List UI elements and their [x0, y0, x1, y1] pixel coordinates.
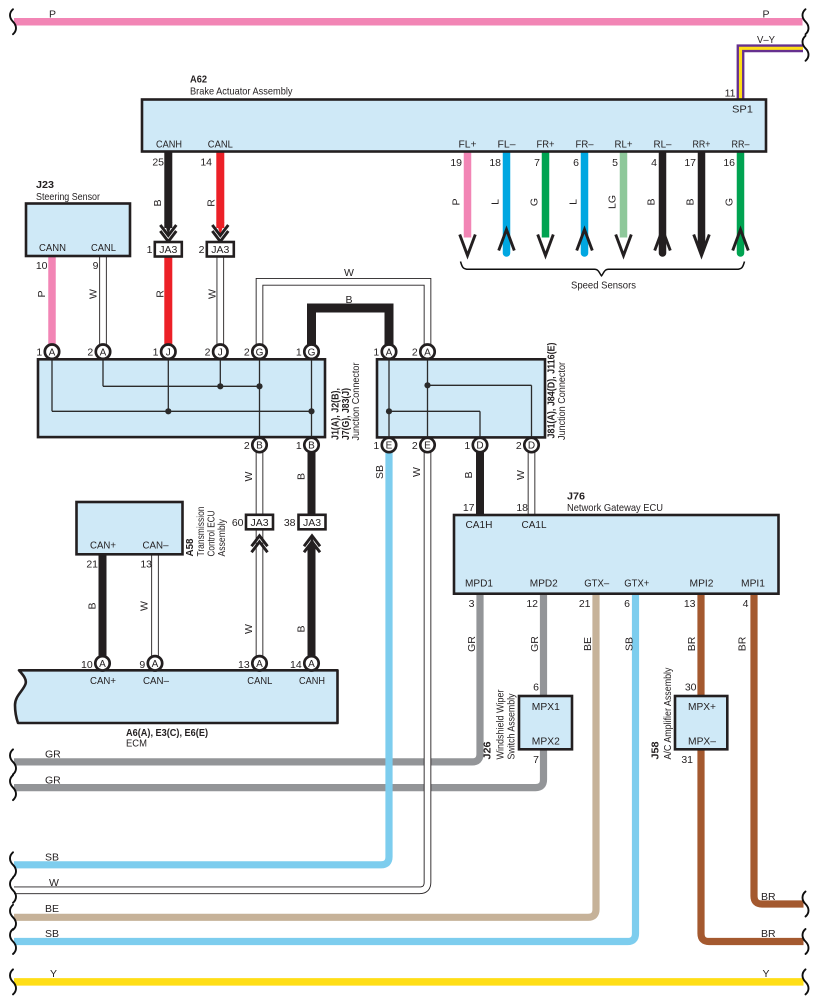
- svg-text:12: 12: [526, 598, 538, 610]
- svg-text:W: W: [344, 267, 354, 279]
- svg-text:7: 7: [533, 754, 539, 766]
- svg-text:V–Y: V–Y: [757, 34, 775, 46]
- svg-text:A: A: [424, 347, 431, 358]
- svg-text:6: 6: [573, 157, 579, 169]
- svg-text:JA3: JA3: [159, 244, 177, 256]
- svg-text:CANH: CANH: [299, 675, 325, 687]
- svg-text:MPD1: MPD1: [465, 577, 493, 589]
- svg-text:B: B: [685, 198, 697, 205]
- svg-text:P: P: [49, 9, 56, 21]
- svg-text:JA3: JA3: [211, 244, 229, 256]
- svg-text:CAN–: CAN–: [143, 540, 169, 552]
- svg-text:9: 9: [93, 260, 99, 272]
- svg-text:2: 2: [244, 347, 250, 359]
- svg-text:J26: J26: [482, 741, 494, 759]
- svg-text:CA1L: CA1L: [522, 519, 547, 531]
- svg-text:SB: SB: [624, 637, 636, 651]
- svg-text:1: 1: [373, 440, 379, 452]
- svg-text:4: 4: [743, 598, 749, 610]
- svg-text:R: R: [155, 290, 167, 298]
- svg-text:Speed Sensors: Speed Sensors: [571, 280, 636, 292]
- svg-text:38: 38: [284, 517, 296, 529]
- svg-text:W: W: [243, 624, 255, 634]
- svg-text:MPX2: MPX2: [532, 735, 560, 747]
- svg-text:1: 1: [147, 244, 153, 256]
- svg-text:3: 3: [469, 598, 475, 610]
- svg-text:19: 19: [450, 157, 462, 169]
- svg-text:P: P: [762, 9, 769, 21]
- svg-text:CANL: CANL: [247, 675, 272, 687]
- svg-text:BR: BR: [761, 928, 776, 940]
- svg-text:B: B: [87, 602, 99, 609]
- svg-text:MPI2: MPI2: [690, 577, 714, 589]
- svg-text:6: 6: [624, 598, 630, 610]
- svg-text:W: W: [49, 877, 59, 889]
- svg-text:G: G: [724, 198, 736, 206]
- svg-text:FL–: FL–: [498, 139, 516, 151]
- svg-text:E: E: [386, 441, 393, 452]
- svg-text:MPD2: MPD2: [530, 577, 558, 589]
- svg-text:J58: J58: [650, 741, 662, 759]
- svg-text:1: 1: [373, 347, 379, 359]
- svg-text:B: B: [152, 199, 164, 206]
- svg-text:CAN+: CAN+: [90, 675, 116, 687]
- svg-text:17: 17: [684, 157, 696, 169]
- svg-text:BR: BR: [761, 891, 776, 903]
- svg-text:Network Gateway ECU: Network Gateway ECU: [567, 502, 663, 514]
- svg-text:P: P: [451, 198, 463, 205]
- svg-text:W: W: [207, 289, 219, 299]
- svg-text:G: G: [529, 198, 541, 206]
- svg-text:13: 13: [140, 559, 152, 571]
- svg-text:2: 2: [205, 347, 211, 359]
- svg-text:B: B: [345, 294, 352, 306]
- svg-text:D: D: [476, 441, 483, 452]
- svg-text:J: J: [166, 347, 171, 358]
- svg-text:CA1H: CA1H: [466, 519, 493, 531]
- svg-text:J76: J76: [567, 491, 585, 503]
- svg-text:J: J: [218, 347, 223, 358]
- svg-text:ECM: ECM: [126, 737, 147, 749]
- svg-text:LG: LG: [607, 195, 619, 209]
- svg-text:31: 31: [681, 754, 693, 766]
- svg-text:2: 2: [412, 347, 418, 359]
- svg-text:14: 14: [290, 659, 302, 671]
- svg-text:P: P: [36, 290, 48, 297]
- svg-text:10: 10: [36, 260, 48, 272]
- svg-text:BE: BE: [45, 903, 59, 915]
- svg-text:Junction Connector: Junction Connector: [556, 362, 568, 440]
- svg-text:A: A: [49, 347, 56, 358]
- svg-text:1: 1: [36, 347, 42, 359]
- svg-text:2: 2: [412, 440, 418, 452]
- svg-text:5: 5: [612, 157, 618, 169]
- svg-text:30: 30: [685, 681, 697, 693]
- svg-text:B: B: [308, 441, 315, 452]
- svg-text:RR–: RR–: [732, 139, 750, 151]
- svg-text:W: W: [88, 289, 100, 299]
- svg-text:BE: BE: [582, 637, 594, 651]
- svg-text:21: 21: [86, 559, 98, 571]
- svg-text:Junction Connector: Junction Connector: [350, 362, 362, 440]
- svg-text:SB: SB: [45, 851, 59, 863]
- svg-text:GTX+: GTX+: [624, 577, 649, 589]
- svg-text:Switch Assembly: Switch Assembly: [506, 693, 518, 760]
- svg-text:2: 2: [516, 440, 522, 452]
- svg-text:Steering Sensor: Steering Sensor: [36, 191, 100, 203]
- svg-text:A: A: [100, 347, 107, 358]
- svg-text:2: 2: [87, 347, 93, 359]
- svg-text:MPX1: MPX1: [532, 701, 560, 713]
- svg-text:G: G: [308, 347, 316, 358]
- svg-text:1: 1: [296, 347, 302, 359]
- svg-text:A62: A62: [190, 73, 207, 85]
- svg-text:A/C Amplifier Assembly: A/C Amplifier Assembly: [662, 667, 674, 760]
- svg-text:17: 17: [463, 502, 475, 514]
- svg-text:L: L: [568, 199, 580, 205]
- svg-text:R: R: [206, 199, 218, 207]
- svg-text:GR: GR: [466, 636, 478, 652]
- svg-text:14: 14: [200, 157, 212, 169]
- svg-text:RL+: RL+: [615, 139, 633, 151]
- svg-text:JA3: JA3: [303, 517, 321, 529]
- svg-text:W: W: [243, 471, 255, 481]
- svg-text:1: 1: [464, 440, 470, 452]
- svg-text:RL–: RL–: [654, 139, 672, 151]
- svg-text:GTX–: GTX–: [584, 577, 609, 589]
- svg-text:Y: Y: [762, 968, 769, 980]
- svg-text:G: G: [256, 347, 264, 358]
- svg-text:CANN: CANN: [39, 242, 66, 254]
- svg-text:FR–: FR–: [576, 139, 594, 151]
- svg-text:7: 7: [534, 157, 540, 169]
- svg-text:FR+: FR+: [537, 139, 555, 151]
- svg-text:W: W: [515, 470, 527, 480]
- svg-text:B: B: [463, 471, 475, 478]
- svg-text:CAN+: CAN+: [90, 540, 116, 552]
- svg-text:11: 11: [725, 88, 736, 100]
- svg-text:MPX–: MPX–: [688, 735, 716, 747]
- svg-text:A: A: [308, 659, 315, 670]
- svg-text:A: A: [99, 659, 106, 670]
- svg-text:18: 18: [516, 502, 528, 514]
- svg-text:SB: SB: [45, 928, 59, 940]
- svg-text:RR+: RR+: [693, 139, 711, 151]
- svg-text:GR: GR: [45, 749, 61, 761]
- svg-text:60: 60: [232, 517, 244, 529]
- svg-text:18: 18: [489, 157, 501, 169]
- svg-text:2: 2: [199, 244, 205, 256]
- svg-text:1: 1: [153, 347, 159, 359]
- svg-text:W: W: [139, 601, 151, 611]
- svg-text:6: 6: [533, 681, 539, 693]
- svg-text:13: 13: [238, 659, 250, 671]
- svg-text:FL+: FL+: [459, 139, 477, 151]
- svg-text:2: 2: [244, 440, 250, 452]
- svg-text:J23: J23: [36, 179, 54, 191]
- svg-text:Y: Y: [50, 968, 57, 980]
- svg-text:A: A: [152, 659, 159, 670]
- svg-text:CAN–: CAN–: [143, 675, 169, 687]
- svg-text:B: B: [646, 198, 658, 205]
- svg-text:Assembly: Assembly: [216, 518, 228, 556]
- svg-text:SP1: SP1: [732, 104, 753, 116]
- svg-text:W: W: [411, 467, 423, 477]
- svg-text:B: B: [296, 473, 308, 480]
- svg-text:4: 4: [651, 157, 657, 169]
- svg-text:MPI1: MPI1: [741, 577, 765, 589]
- svg-text:Brake Actuator Assembly: Brake Actuator Assembly: [190, 85, 293, 97]
- svg-text:CANL: CANL: [208, 139, 233, 151]
- svg-text:21: 21: [579, 598, 591, 610]
- svg-text:10: 10: [81, 659, 93, 671]
- svg-text:GR: GR: [529, 636, 541, 652]
- svg-text:GR: GR: [45, 774, 61, 786]
- svg-text:JA3: JA3: [250, 517, 268, 529]
- svg-text:E: E: [424, 441, 431, 452]
- svg-text:B: B: [256, 441, 263, 452]
- svg-text:BR: BR: [686, 636, 698, 651]
- svg-text:BR: BR: [737, 636, 749, 651]
- svg-text:16: 16: [723, 157, 735, 169]
- svg-text:13: 13: [684, 598, 696, 610]
- svg-text:A: A: [386, 347, 393, 358]
- svg-text:CANL: CANL: [91, 242, 116, 254]
- svg-text:D: D: [528, 441, 535, 452]
- svg-text:L: L: [490, 199, 502, 205]
- svg-text:9: 9: [139, 659, 145, 671]
- svg-text:CANH: CANH: [156, 139, 182, 151]
- svg-text:1: 1: [296, 440, 302, 452]
- svg-text:B: B: [296, 625, 308, 632]
- svg-text:MPX+: MPX+: [688, 701, 716, 713]
- svg-text:SB: SB: [374, 465, 386, 479]
- svg-text:25: 25: [152, 157, 164, 169]
- svg-text:A: A: [256, 659, 263, 670]
